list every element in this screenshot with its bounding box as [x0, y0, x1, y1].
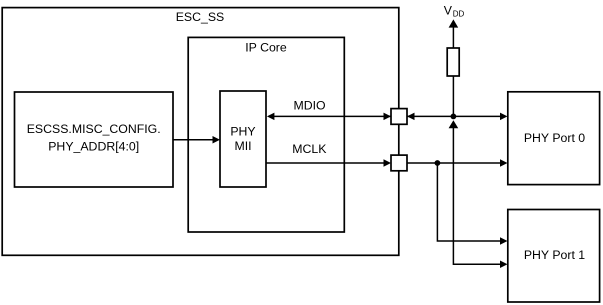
register ESCSS.MISC_CONFIG.PHY_ADDR[4:0] — [15, 92, 174, 187]
wire MCLK external (pad to PHY Port 0) — [407, 159, 508, 167]
pad MCLK pin — [391, 155, 407, 171]
block PHY MII — [220, 91, 266, 187]
svg-text:MII: MII — [234, 139, 251, 153]
wire PHY_ADDR to PHY MII — [173, 136, 220, 144]
wire MDIO internal (pad to PHY MII) — [267, 113, 391, 121]
wire MDIO external (pad to PHY Port 0) — [407, 113, 508, 121]
pad MDIO pin — [391, 109, 407, 125]
wire resistor to MDIO node — [452, 76, 454, 116]
block PHY Port 1 — [508, 210, 600, 303]
svg-text:V: V — [444, 4, 453, 18]
svg-text:PHY_ADDR[4:0]: PHY_ADDR[4:0] — [48, 139, 139, 153]
svg-text:IP Core: IP Core — [245, 41, 287, 55]
node MCLK junction — [435, 160, 441, 166]
node MDIO junction — [451, 114, 457, 120]
block IP Core — [188, 37, 344, 232]
block PHY Port 0 — [508, 92, 600, 185]
svg-text:ESC_SS: ESC_SS — [176, 10, 225, 24]
svg-text:PHY Port 0: PHY Port 0 — [524, 131, 585, 145]
svg-text:ESCSS.MISC_CONFIG.: ESCSS.MISC_CONFIG. — [27, 122, 161, 136]
power VDD label — [444, 4, 465, 19]
wire MDIO junction to PHY Port 1 — [449, 120, 508, 268]
wire MCLK internal (PHY MII to pad) — [266, 159, 391, 167]
svg-text:PHY Port 1: PHY Port 1 — [524, 248, 585, 262]
resistor pull-up — [447, 48, 459, 76]
svg-text:MCLK: MCLK — [292, 142, 327, 156]
svg-text:DD: DD — [453, 9, 465, 18]
svg-text:MDIO: MDIO — [294, 98, 326, 112]
svg-text:PHY: PHY — [230, 124, 255, 138]
block ESC_SS — [2, 8, 399, 256]
wire VDD arrow up — [449, 19, 459, 48]
wire MCLK junction to PHY Port 1 — [437, 163, 507, 245]
